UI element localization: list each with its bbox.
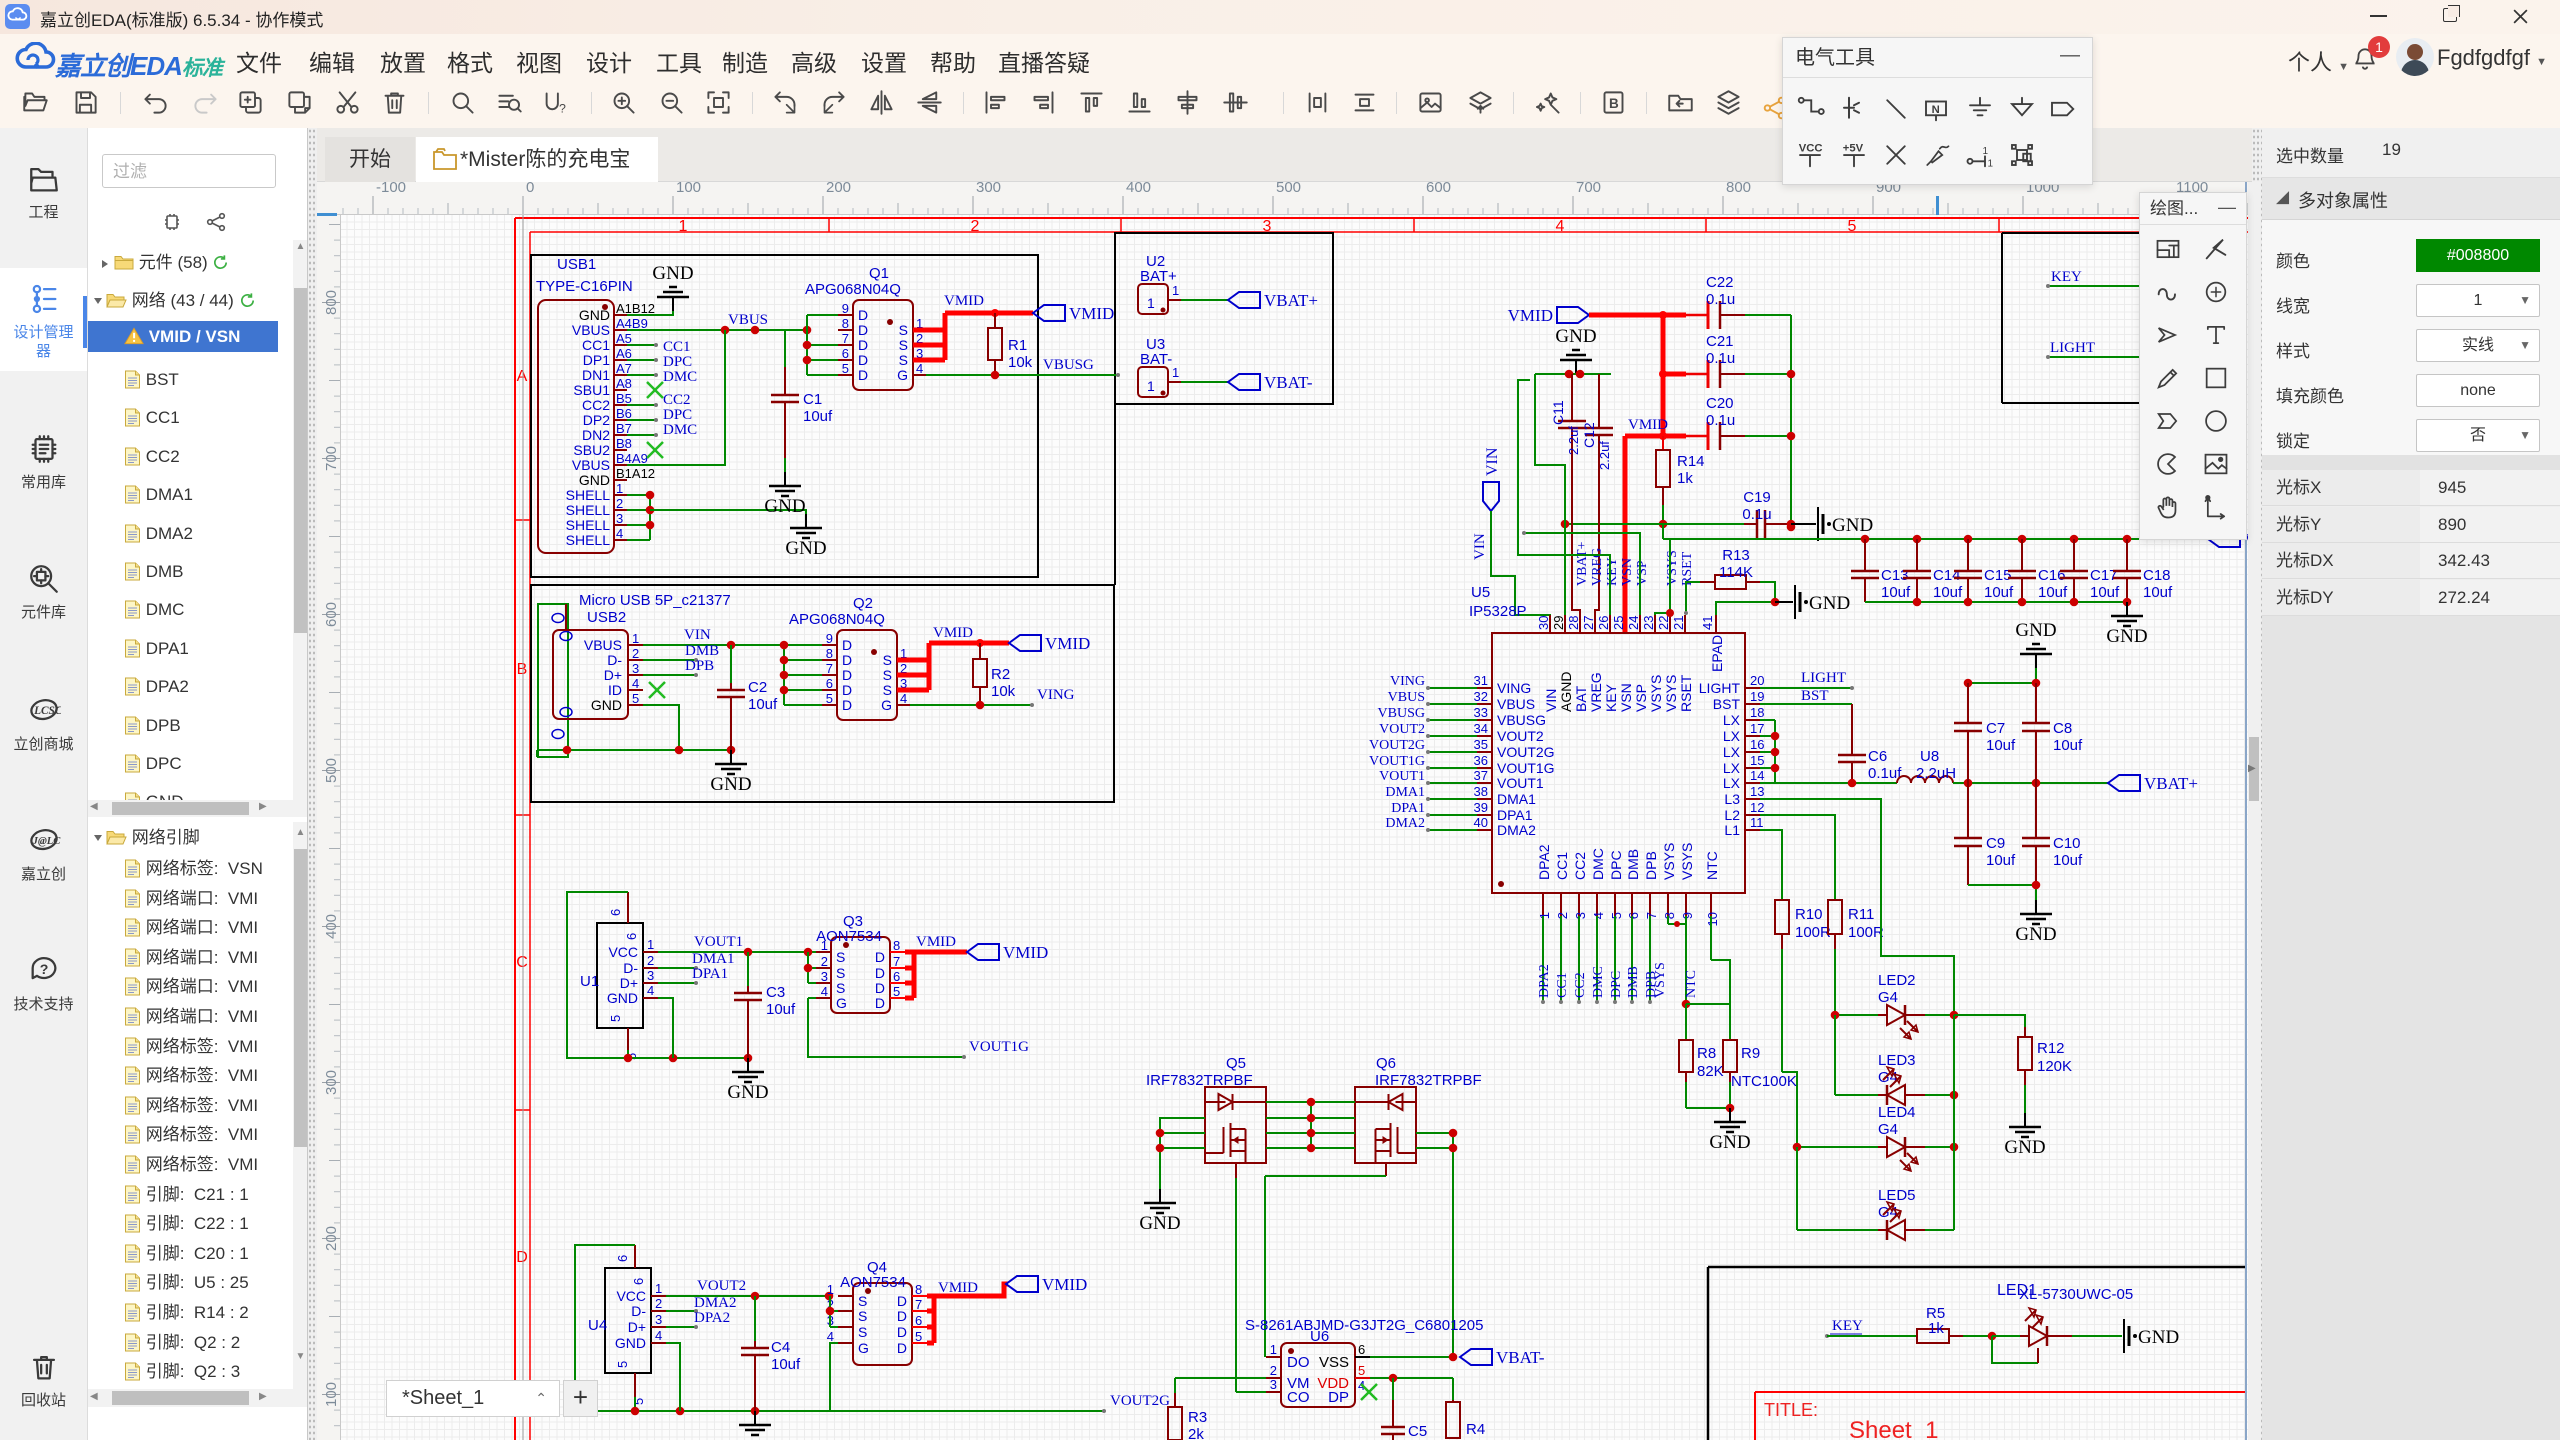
svg-text:1: 1 xyxy=(827,1282,834,1297)
svg-text:B6: B6 xyxy=(616,406,632,421)
svg-text:2: 2 xyxy=(1270,1363,1277,1378)
svg-text:400: 400 xyxy=(323,914,340,939)
svg-text:D: D xyxy=(897,1340,907,1356)
junction xyxy=(1950,1011,1959,1020)
svg-text:GND: GND xyxy=(1809,593,1850,614)
wire DPA1 stub xyxy=(658,982,696,984)
svg-text:40: 40 xyxy=(1474,815,1488,830)
svg-text:RSET: RSET xyxy=(1680,551,1695,586)
svg-text:C10: C10 xyxy=(2053,835,2081,852)
svg-text:DPC: DPC xyxy=(1608,850,1624,880)
svg-text:CC1: CC1 xyxy=(1554,852,1570,880)
svg-text:VIN: VIN xyxy=(684,627,711,643)
svg-text:GND: GND xyxy=(2004,1137,2045,1158)
svg-text:D: D xyxy=(858,307,868,323)
svg-text:CC2: CC2 xyxy=(582,397,610,413)
svg-text:KEY: KEY xyxy=(1832,1318,1863,1334)
svg-text:15: 15 xyxy=(1750,753,1764,768)
junction xyxy=(780,641,789,650)
sheet border frame xyxy=(515,217,2248,219)
svg-text:300: 300 xyxy=(323,1070,340,1095)
junction xyxy=(624,1054,633,1063)
wire net VBUSG xyxy=(1428,719,1477,721)
svg-text:D: D xyxy=(842,652,852,668)
ground U1 bus xyxy=(747,1058,749,1072)
svg-text:6: 6 xyxy=(1626,912,1641,919)
svg-text:Micro USB 5P_c21377: Micro USB 5P_c21377 xyxy=(579,592,731,609)
resistor R11 xyxy=(1828,900,1842,934)
svg-text:Q1: Q1 xyxy=(869,265,889,282)
svg-text:DMC: DMC xyxy=(1590,848,1606,880)
svg-text:7: 7 xyxy=(842,331,849,346)
svg-text:DPC: DPC xyxy=(1609,971,1624,998)
wire net VBUS xyxy=(1428,703,1477,705)
wire U8 to VBAT+ xyxy=(1953,782,2108,784)
wire VOUT2G xyxy=(830,1343,838,1411)
wire net VOUT1 xyxy=(1428,782,1477,784)
svg-text:29: 29 xyxy=(1551,616,1566,630)
svg-text:LIGHT: LIGHT xyxy=(1801,670,1846,686)
svg-text:2: 2 xyxy=(821,954,828,969)
svg-text:DPB: DPB xyxy=(1643,851,1659,880)
capacitor C11 xyxy=(1571,374,1573,421)
svg-text:ID: ID xyxy=(608,682,622,698)
svg-text:D: D xyxy=(875,949,885,965)
svg-text:A7: A7 xyxy=(616,361,632,376)
svg-text:36: 36 xyxy=(1474,753,1488,768)
wire VING xyxy=(897,704,910,706)
capacitor C12 xyxy=(1598,374,1600,428)
svg-text:6: 6 xyxy=(615,1255,630,1262)
wire net DPA1 xyxy=(1428,814,1477,816)
svg-text:VREG: VREG xyxy=(1590,548,1605,586)
port VMID (Q3) xyxy=(967,944,999,960)
junction xyxy=(1565,370,1574,379)
junction xyxy=(1950,1091,1959,1100)
svg-text:TITLE:: TITLE: xyxy=(1764,1400,1818,1420)
capacitor C14 xyxy=(1916,539,1918,571)
svg-text:DMA2: DMA2 xyxy=(694,1295,737,1311)
svg-text:D: D xyxy=(842,667,852,683)
svg-text:C12: C12 xyxy=(1581,422,1597,448)
capacitor C3 xyxy=(747,986,749,993)
wire VIN (USB2 VBUS) xyxy=(643,644,784,646)
svg-text:22: 22 xyxy=(1656,616,1671,630)
svg-text:S: S xyxy=(883,652,892,668)
svg-text:-100: -100 xyxy=(376,179,406,196)
junction xyxy=(780,656,789,665)
svg-text:VSYS: VSYS xyxy=(1663,675,1679,712)
svg-text:R2: R2 xyxy=(991,666,1010,683)
svg-text:VMID: VMID xyxy=(916,934,956,950)
capacitor C2 xyxy=(730,683,732,690)
svg-text:6: 6 xyxy=(624,933,639,940)
svg-text:C8: C8 xyxy=(2053,720,2072,737)
inductor U8 2.2uH xyxy=(1897,776,1911,783)
svg-text:+5V: +5V xyxy=(1843,142,1864,154)
wire VSS to VBAT- xyxy=(1370,1356,1453,1358)
port VBAT- xyxy=(1228,374,1260,390)
toolbar xyxy=(0,80,2560,128)
svg-text:18: 18 xyxy=(1750,705,1764,720)
svg-text:9: 9 xyxy=(842,301,849,316)
svg-text:DPC: DPC xyxy=(663,354,692,370)
svg-text:CC1: CC1 xyxy=(1555,972,1570,998)
svg-text:L1: L1 xyxy=(1724,822,1740,838)
svg-text:DMA1: DMA1 xyxy=(692,951,735,967)
svg-text:1: 1 xyxy=(1172,365,1179,380)
capacitor C16 xyxy=(2021,539,2023,571)
svg-text:DPA2: DPA2 xyxy=(1536,844,1552,880)
junction xyxy=(1449,1129,1458,1138)
svg-text:NTC: NTC xyxy=(1704,851,1720,880)
svg-text:VMID: VMID xyxy=(1628,417,1668,433)
port VMID (Q1) xyxy=(1033,305,1065,321)
connector U3 BAT- xyxy=(1138,367,1168,397)
junction xyxy=(2070,598,2079,607)
wire DMC2 stub xyxy=(627,434,656,436)
ground C7C8 xyxy=(2035,654,2037,668)
svg-text:XL-5730UWC-05: XL-5730UWC-05 xyxy=(2019,1286,2133,1303)
svg-text:EPAD: EPAD xyxy=(1709,635,1725,672)
svg-text:USB1: USB1 xyxy=(557,256,596,273)
svg-text:1: 1 xyxy=(616,481,623,496)
svg-text:NTC: NTC xyxy=(1684,970,1699,998)
svg-text:R8: R8 xyxy=(1697,1045,1716,1062)
wire USB2 GND xyxy=(643,705,679,750)
junction xyxy=(804,964,813,973)
wire VDD xyxy=(1370,1377,1453,1379)
svg-text:2: 2 xyxy=(632,646,639,661)
wire USB2 ground bus xyxy=(537,749,731,751)
junction xyxy=(1771,764,1780,773)
svg-text:DPA1: DPA1 xyxy=(1391,801,1425,816)
svg-text:IP5328P: IP5328P xyxy=(1469,603,1527,620)
port VMID (Q2) xyxy=(1009,635,1041,651)
junction xyxy=(2123,598,2132,607)
svg-text:VBUS: VBUS xyxy=(572,322,610,338)
svg-text:C19: C19 xyxy=(1743,489,1771,506)
schematic canvas with grid xyxy=(341,215,2248,1440)
svg-text:G4: G4 xyxy=(1878,989,1898,1006)
svg-text:7: 7 xyxy=(915,1297,922,1312)
svg-text:VBAT+: VBAT+ xyxy=(1575,541,1590,586)
wire Q5 CO line xyxy=(1235,1163,1237,1178)
svg-text:C1: C1 xyxy=(803,391,822,408)
svg-text:11: 11 xyxy=(1750,815,1764,830)
port VBAT+ xyxy=(1228,292,1260,308)
wire net DMA2 xyxy=(1428,829,1477,831)
svg-text:LX: LX xyxy=(1723,775,1741,791)
junction xyxy=(803,326,812,335)
junction xyxy=(2018,535,2027,544)
svg-text:VING: VING xyxy=(1497,680,1531,696)
ground Q5 xyxy=(1159,1189,1161,1203)
svg-text:B8: B8 xyxy=(616,436,632,451)
transistor Q4 AON7534 xyxy=(853,1283,912,1365)
splitter dotted xyxy=(308,128,317,1440)
no-connect B8 xyxy=(647,442,663,458)
svg-text:DMC: DMC xyxy=(663,422,697,438)
wire R10 jog xyxy=(1782,1072,1797,1147)
tab strip xyxy=(317,128,2262,182)
svg-text:6: 6 xyxy=(608,909,623,916)
svg-text:600: 600 xyxy=(1426,179,1451,196)
junction xyxy=(675,746,684,755)
wire AGND rail xyxy=(1535,373,1611,375)
wire Q1 drain bracket xyxy=(806,315,808,375)
svg-text:A8: A8 xyxy=(616,376,632,391)
svg-text:1: 1 xyxy=(679,218,688,235)
svg-text:1: 1 xyxy=(1988,158,1994,169)
wire DPC stub xyxy=(627,359,656,361)
wire U4 GND pin xyxy=(666,1343,680,1411)
svg-text:10uf: 10uf xyxy=(1881,584,1911,601)
U4 pins xyxy=(651,1295,666,1297)
port VBAT+ (right) xyxy=(2108,775,2140,791)
svg-text:10k: 10k xyxy=(991,683,1016,700)
svg-text:S: S xyxy=(858,1293,867,1309)
svg-text:4: 4 xyxy=(616,526,623,541)
resistor R8 xyxy=(1685,1004,1687,1040)
svg-text:VOUT1G: VOUT1G xyxy=(1497,760,1555,776)
wire VSP pin24 xyxy=(1524,533,1640,615)
svg-text:DMA2: DMA2 xyxy=(1385,816,1425,831)
sheet tab bottom xyxy=(386,1380,560,1417)
wire U3 to VBAT- xyxy=(1181,381,1228,383)
wire C13-C18 gnd bus xyxy=(1865,601,2127,603)
svg-text:D: D xyxy=(858,337,868,353)
svg-text:35: 35 xyxy=(1474,737,1488,752)
wire net DMA1 xyxy=(1428,798,1477,800)
svg-text:A: A xyxy=(517,368,528,385)
wire U1 pin5 to bus xyxy=(627,1050,629,1058)
svg-text:B7: B7 xyxy=(616,421,632,436)
svg-text:KEY: KEY xyxy=(2051,269,2082,285)
svg-text:D: D xyxy=(858,322,868,338)
wire LED right rail xyxy=(1953,1015,1955,1230)
svg-text:R12: R12 xyxy=(2037,1040,2065,1057)
svg-text:GND: GND xyxy=(2015,924,2056,945)
svg-text:VSN: VSN xyxy=(1618,683,1634,712)
U5 left pins xyxy=(1477,687,1492,689)
wire VOUT1 xyxy=(658,951,825,953)
svg-text:3: 3 xyxy=(1573,912,1588,919)
svg-text:10uf: 10uf xyxy=(2053,852,2083,869)
svg-text:VBUS: VBUS xyxy=(584,637,622,653)
wire VIN to U5 xyxy=(1491,511,1550,633)
junction xyxy=(2032,881,2041,890)
svg-text:VOUT2G: VOUT2G xyxy=(1369,738,1425,753)
resistor R4 xyxy=(1452,1400,1454,1402)
wire R8R9 gnd xyxy=(1686,1107,1730,1109)
svg-text:S: S xyxy=(836,965,845,981)
junction xyxy=(1449,1353,1458,1362)
svg-text:VBAT-: VBAT- xyxy=(1264,373,1313,392)
svg-text:10uf: 10uf xyxy=(748,696,778,713)
svg-text:D: D xyxy=(875,995,885,1011)
svg-text:C16: C16 xyxy=(2038,567,2066,584)
svg-text:Sheet_1: Sheet_1 xyxy=(1849,1417,1938,1440)
svg-text:LX: LX xyxy=(1723,760,1741,776)
svg-text:A4B9: A4B9 xyxy=(616,316,648,331)
svg-text:800: 800 xyxy=(1726,179,1751,196)
svg-text:10uf: 10uf xyxy=(2090,584,2120,601)
svg-text:GND: GND xyxy=(591,697,622,713)
capacitor C6 xyxy=(1851,748,1853,755)
ground AGND cluster xyxy=(1575,360,1577,374)
ground USB1 shell xyxy=(805,514,807,528)
wire SHELL to GND xyxy=(650,510,806,514)
svg-text:C11: C11 xyxy=(1550,400,1566,425)
svg-text:G: G xyxy=(881,697,892,713)
svg-text:RSET: RSET xyxy=(1678,674,1694,712)
wire VOUT2 xyxy=(666,1295,829,1297)
svg-text:VOUT2G: VOUT2G xyxy=(1110,1393,1170,1409)
svg-text:B1A12: B1A12 xyxy=(616,466,655,481)
svg-text:2: 2 xyxy=(1555,912,1570,919)
transistor Q6 IRF7832TRPBF xyxy=(1355,1087,1416,1163)
svg-text:VMID: VMID xyxy=(938,1280,978,1296)
ground USB1 top xyxy=(672,297,674,311)
svg-text:LED4: LED4 xyxy=(1878,1104,1916,1121)
svg-text:U5: U5 xyxy=(1471,584,1490,601)
svg-text:0.1u: 0.1u xyxy=(1706,412,1735,429)
ground R8R9 xyxy=(1729,1108,1731,1122)
svg-text:6: 6 xyxy=(1358,1342,1365,1357)
svg-text:114K: 114K xyxy=(1719,564,1753,581)
junction xyxy=(976,701,985,710)
resistor R3 xyxy=(1174,1393,1176,1407)
svg-text:VING: VING xyxy=(1037,687,1075,703)
capacitor C10 xyxy=(2035,783,2037,838)
svg-text:D: D xyxy=(897,1308,907,1324)
wire net VOUT2G xyxy=(1428,751,1477,753)
wire Q4 S bracket xyxy=(829,1296,831,1327)
svg-text:R3: R3 xyxy=(1188,1409,1207,1426)
port VMID (Q4) xyxy=(1006,1276,1038,1292)
svg-text:10uf: 10uf xyxy=(771,1356,801,1373)
net VMID selected Q4 xyxy=(927,1294,934,1299)
svg-text:DMA1: DMA1 xyxy=(1497,791,1536,807)
junction xyxy=(669,1054,678,1063)
svg-text:8: 8 xyxy=(1662,912,1677,919)
svg-text:2: 2 xyxy=(616,496,623,511)
junction xyxy=(1389,1374,1398,1383)
svg-text:VCC: VCC xyxy=(616,1288,646,1304)
svg-text:NTC100K: NTC100K xyxy=(1731,1073,1797,1090)
svg-text:19: 19 xyxy=(1750,689,1764,704)
svg-text:G4: G4 xyxy=(1878,1121,1898,1138)
svg-text:N: N xyxy=(1932,104,1940,116)
svg-text:DPC: DPC xyxy=(663,407,692,423)
junction xyxy=(1659,520,1668,529)
x-axis origin line xyxy=(522,215,524,1440)
svg-text:VBUS: VBUS xyxy=(1497,696,1535,712)
svg-text:400: 400 xyxy=(1126,179,1151,196)
wire C4 gnd xyxy=(754,1411,756,1425)
wire VOUT2G label xyxy=(1102,1409,1106,1413)
svg-text:100R: 100R xyxy=(1795,924,1831,941)
svg-text:37: 37 xyxy=(1474,768,1488,783)
svg-text:DO: DO xyxy=(1287,1354,1310,1371)
svg-text:VBUSG: VBUSG xyxy=(1497,712,1546,728)
capacitor C1 xyxy=(784,367,786,395)
junction xyxy=(2070,535,2079,544)
capacitor C18 xyxy=(2126,539,2128,571)
wire Q5 left rail xyxy=(1160,1118,1205,1189)
svg-text:DMA1: DMA1 xyxy=(1385,785,1425,800)
svg-text:100R: 100R xyxy=(1848,924,1884,941)
svg-text:SHELL: SHELL xyxy=(566,487,611,503)
svg-text:CC2: CC2 xyxy=(1573,972,1588,998)
svg-text:1: 1 xyxy=(1147,295,1155,311)
svg-text:L3: L3 xyxy=(1724,791,1740,807)
svg-text:VSYS: VSYS xyxy=(1661,843,1677,880)
U5 bottom pins xyxy=(1542,893,1544,916)
svg-text:4: 4 xyxy=(647,983,654,998)
junction xyxy=(1988,1332,1997,1341)
svg-text:30: 30 xyxy=(1536,616,1551,630)
svg-text:DMB: DMB xyxy=(1625,849,1641,880)
svg-text:LIGHT: LIGHT xyxy=(1699,680,1741,696)
svg-text:5: 5 xyxy=(826,691,833,706)
svg-text:DP1: DP1 xyxy=(583,352,610,368)
svg-text:D+: D+ xyxy=(604,667,622,683)
junction xyxy=(1913,535,1922,544)
svg-text:SBU2: SBU2 xyxy=(573,442,610,458)
svg-text:SHELL: SHELL xyxy=(566,517,611,533)
port VBAT- (U6) xyxy=(1460,1349,1492,1365)
svg-text:2.2uH: 2.2uH xyxy=(1916,765,1956,782)
U1 pins xyxy=(643,951,658,953)
svg-text:LED2: LED2 xyxy=(1878,972,1916,989)
svg-text:4: 4 xyxy=(632,676,639,691)
svg-text:VOUT1: VOUT1 xyxy=(694,934,743,950)
svg-text:SBU1: SBU1 xyxy=(573,382,610,398)
svg-text:500: 500 xyxy=(1276,179,1301,196)
wire C7C8 top rail xyxy=(1968,682,2036,684)
svg-text:C14: C14 xyxy=(1933,567,1961,584)
svg-text:R14: R14 xyxy=(1677,453,1705,470)
wire R5 to LED1 xyxy=(1963,1335,1992,1337)
svg-text:0.1u: 0.1u xyxy=(1706,291,1735,308)
wire stub DPB xyxy=(1649,916,1651,1002)
svg-text:0: 0 xyxy=(526,179,534,196)
junction xyxy=(1659,370,1667,378)
svg-text:R1: R1 xyxy=(1008,337,1027,354)
svg-text:D: D xyxy=(858,367,868,383)
resistor R12 xyxy=(2024,1027,2026,1037)
svg-text:0.1u: 0.1u xyxy=(1706,350,1735,367)
connector USB2 Micro USB 5P_c21377 shell xyxy=(538,604,568,757)
svg-text:GND: GND xyxy=(579,472,610,488)
junction xyxy=(646,521,655,530)
svg-text:CO: CO xyxy=(1287,1389,1310,1406)
transistor Q3 AON7534 xyxy=(831,937,890,1013)
no-connect DP xyxy=(1361,1384,1377,1400)
svg-text:1: 1 xyxy=(655,1281,662,1296)
svg-text:3: 3 xyxy=(1270,1377,1277,1392)
svg-text:VBUSG: VBUSG xyxy=(1378,706,1425,721)
svg-text:U1: U1 xyxy=(580,973,599,990)
svg-text:3: 3 xyxy=(821,969,828,984)
svg-text:5: 5 xyxy=(608,1015,623,1022)
connector USB2 body xyxy=(553,630,628,719)
svg-text:33: 33 xyxy=(1474,705,1488,720)
wire VBUS A4B9 xyxy=(627,329,807,331)
svg-text:1: 1 xyxy=(647,937,654,952)
